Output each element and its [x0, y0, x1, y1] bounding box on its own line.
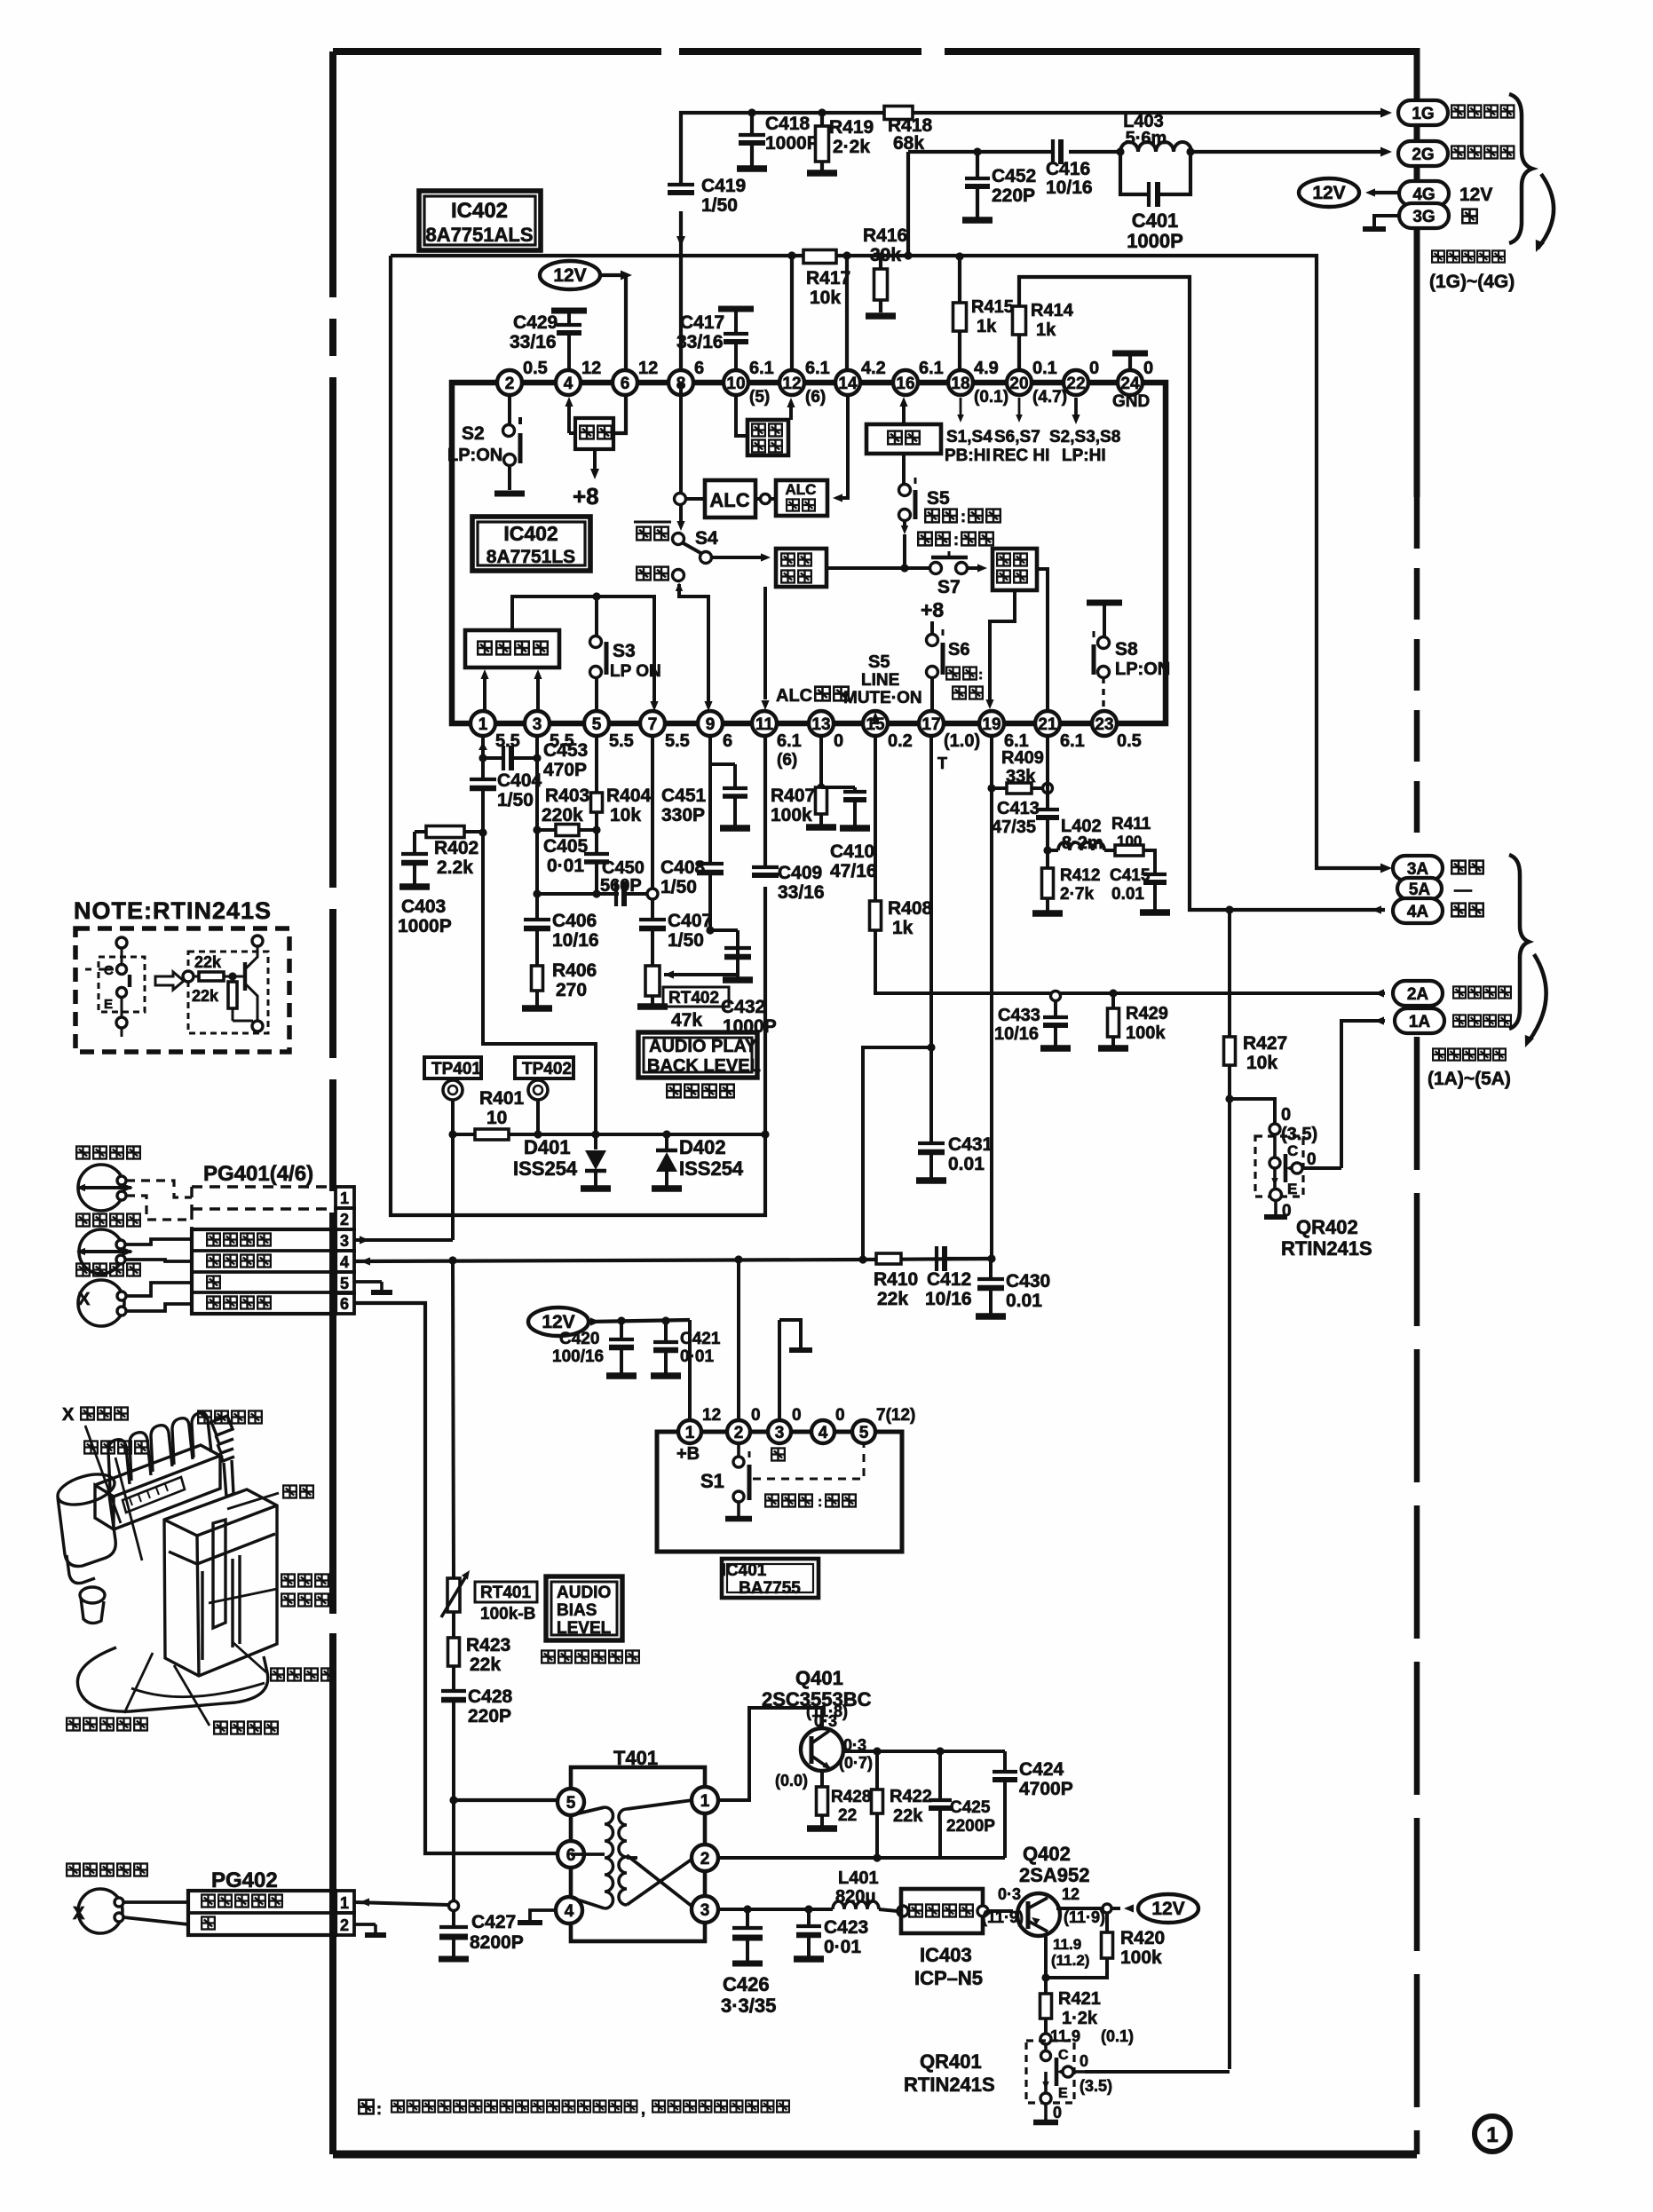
capacitor C404 1/50 on pin1 column — [481, 758, 485, 779]
svg-text:Q401: Q401 — [795, 1667, 843, 1689]
svg-text:6: 6 — [694, 359, 704, 378]
svg-text:ALC: ALC — [786, 481, 817, 498]
svg-text:RT401: RT401 — [480, 1584, 531, 1602]
svg-text:11.9: 11.9 — [1050, 2027, 1080, 2045]
pin 20 of IC402 — [1007, 370, 1032, 395]
equivalence arrow — [155, 972, 184, 990]
svg-text:5·6m: 5·6m — [1126, 129, 1167, 148]
ground PG402 pin2 — [354, 1923, 376, 1926]
label 全抹消磁头 row1 — [202, 1895, 215, 1908]
svg-text:PG401(4/6): PG401(4/6) — [203, 1162, 313, 1186]
wire 2A line components: capacitor C433 10/16 — [1051, 991, 1061, 1001]
capacitor C407 1/50 on pin7 column — [651, 899, 654, 920]
svg-text:2: 2 — [734, 1424, 744, 1442]
label 记录:导通 — [918, 533, 932, 546]
pin 6 of T401 — [558, 1841, 584, 1868]
svg-text:C451: C451 — [661, 786, 707, 806]
svg-text:R407: R407 — [771, 786, 815, 806]
wire row4 record audio line — [360, 1257, 370, 1265]
svg-text::: : — [953, 531, 959, 549]
wire S7 to record amp — [967, 566, 982, 570]
resistor R409 33k between pin19 and pin21 — [992, 786, 1007, 790]
svg-text:23: 23 — [1095, 715, 1113, 734]
svg-text:1: 1 — [478, 715, 488, 734]
switch S8 LP:ON at pin23 — [1087, 600, 1122, 606]
svg-text:9: 9 — [706, 715, 716, 734]
svg-text:0: 0 — [835, 1406, 845, 1425]
svg-text:R409: R409 — [1001, 748, 1044, 768]
head 音频磁头 audio head — [76, 1214, 90, 1227]
svg-text:6.1: 6.1 — [1060, 731, 1085, 751]
svg-text:R428: R428 — [831, 1788, 871, 1806]
label 插件 — [283, 1486, 297, 1498]
wire pin1 IC401 to 12V — [688, 1320, 692, 1420]
transistor QR401 digital — [1040, 2034, 1051, 2044]
pin 11 of IC402 — [752, 711, 777, 736]
svg-text:S5: S5 — [868, 652, 890, 672]
svg-text:C401: C401 — [1132, 209, 1179, 232]
wire pin20 branch y=312 — [1019, 277, 1385, 910]
svg-text:3: 3 — [533, 715, 542, 734]
pin 21 of IC402 — [1035, 711, 1060, 736]
brace 1A-5A — [1509, 855, 1529, 1029]
svg-text:C431: C431 — [948, 1134, 993, 1155]
svg-text:100k: 100k — [1126, 1023, 1166, 1043]
arrow to socket circuit — [1538, 174, 1554, 249]
connector 2A — [1393, 981, 1443, 1006]
svg-text:(11.2): (11.2) — [1051, 1952, 1089, 1969]
svg-text:C415: C415 — [1110, 866, 1151, 885]
svg-text:(0.1): (0.1) — [974, 388, 1008, 407]
svg-text:E: E — [1287, 1181, 1297, 1197]
label 到系统控制 (1A)-(5A) — [1433, 1048, 1445, 1060]
note text bottom — [359, 2100, 373, 2114]
frame right border middle dashed — [1414, 497, 1420, 850]
svg-text:X: X — [73, 1904, 85, 1924]
svg-text:R403: R403 — [545, 786, 589, 806]
svg-text::: : — [961, 508, 966, 525]
label 记录:导通 at S6 — [946, 668, 960, 680]
diode D402 ISS254 — [596, 1133, 667, 1136]
resistor R417 10k in series on loop wire — [803, 250, 836, 264]
svg-text:(5): (5) — [749, 388, 770, 407]
svg-text:C452: C452 — [992, 166, 1036, 186]
svg-text:0.5: 0.5 — [523, 359, 548, 378]
svg-text:0: 0 — [1053, 2104, 1062, 2121]
svg-text:10/16: 10/16 — [1046, 178, 1093, 198]
pin 16 of IC402 — [893, 370, 918, 395]
wire pin17 branch to record line — [863, 1047, 931, 1259]
svg-text:C453: C453 — [543, 740, 588, 761]
svg-text:17: 17 — [921, 715, 940, 734]
svg-text:(0.0): (0.0) — [775, 1772, 808, 1789]
resistor R421 1.2k — [1040, 1994, 1052, 2018]
svg-text:S4: S4 — [695, 528, 718, 549]
svg-text:R419: R419 — [829, 117, 874, 138]
wire pin10 to block — [736, 395, 747, 436]
capacitor C428 220P — [441, 1689, 466, 1693]
svg-text:R414: R414 — [1031, 301, 1074, 320]
svg-text:X: X — [78, 1290, 91, 1309]
svg-text:(11·8): (11·8) — [806, 1702, 848, 1720]
svg-text:560P: 560P — [600, 876, 642, 896]
svg-text:3: 3 — [775, 1424, 785, 1442]
svg-text:1/50: 1/50 — [701, 195, 738, 216]
ground row5 — [354, 1280, 382, 1284]
capacitor C417 33/16 at pin10 — [718, 306, 754, 312]
pin 5 of IC401 — [852, 1420, 875, 1443]
svg-text:S6: S6 — [948, 640, 969, 660]
wire T401 pin3 output — [719, 1908, 833, 1911]
note right circuit 22k resistors + transistor — [188, 952, 268, 1033]
svg-text:33/16: 33/16 — [778, 882, 825, 903]
svg-text:100: 100 — [1117, 833, 1142, 849]
wire pin9 column — [708, 736, 712, 864]
svg-text:+8: +8 — [573, 483, 599, 510]
svg-text:11.9: 11.9 — [1053, 1936, 1081, 1953]
svg-text:6: 6 — [340, 1295, 349, 1313]
svg-text:220P: 220P — [468, 1706, 511, 1726]
wire pin7 column — [651, 736, 654, 894]
svg-text:12: 12 — [581, 359, 601, 378]
svg-text:1/50: 1/50 — [668, 930, 704, 951]
svg-text:0.2: 0.2 — [888, 731, 913, 751]
svg-text:C408: C408 — [660, 857, 706, 878]
label 倾斜调整 — [271, 1669, 284, 1681]
wire row6 erase audio down — [354, 1303, 565, 1853]
svg-text:820μ: 820μ — [835, 1887, 876, 1907]
svg-text:2200P: 2200P — [946, 1817, 995, 1836]
svg-text:1: 1 — [1486, 2123, 1498, 2147]
svg-text:10/16: 10/16 — [994, 1024, 1039, 1044]
wire TP row to pin11 column — [667, 1133, 765, 1136]
svg-text:4.9: 4.9 — [974, 359, 999, 378]
svg-text:39k: 39k — [870, 245, 901, 265]
svg-text:100k: 100k — [1120, 1947, 1162, 1968]
svg-text:13: 13 — [811, 715, 830, 734]
svg-text:22k: 22k — [192, 987, 219, 1005]
svg-text:0·3: 0·3 — [998, 1885, 1021, 1903]
resistor R401 10 on TP row — [453, 1133, 475, 1136]
svg-text:(1G)~(4G): (1G)~(4G) — [1429, 272, 1515, 292]
dashed S1 to pin5 — [753, 1445, 864, 1479]
label 地 row2 — [202, 1917, 215, 1930]
svg-text:5: 5 — [566, 1794, 576, 1813]
svg-text:3A: 3A — [1407, 860, 1429, 879]
wire TP402 stem — [536, 1100, 540, 1134]
capacitor C416 10/16 series — [1051, 139, 1055, 164]
svg-text:AUDIO: AUDIO — [557, 1584, 611, 1602]
svg-text:1/50: 1/50 — [497, 790, 534, 810]
op-amp U-IC401 body — [657, 1432, 902, 1552]
transistor QR402 digital — [1269, 1124, 1280, 1134]
svg-text:2·7k: 2·7k — [1060, 885, 1094, 904]
svg-text:BIAS: BIAS — [557, 1601, 597, 1620]
pin 2 of IC401 — [727, 1420, 750, 1443]
pin 13 of IC402 — [809, 711, 834, 736]
svg-text:1000P: 1000P — [398, 916, 452, 936]
svg-text:LEVEL: LEVEL — [557, 1619, 612, 1638]
svg-text:C412: C412 — [927, 1269, 971, 1290]
pin 17 of IC402 — [919, 711, 944, 736]
svg-text:4.2: 4.2 — [861, 359, 886, 378]
block 重放放大 playback amp — [465, 630, 559, 668]
pin 4 of IC401 — [811, 1420, 834, 1443]
switch S3 LP ON at pin5 — [595, 596, 598, 636]
pin 12 of IC402 — [779, 370, 804, 395]
svg-text:0·01: 0·01 — [824, 1937, 861, 1957]
wire S4 to line amp — [711, 556, 765, 559]
svg-text:0·01: 0·01 — [680, 1347, 714, 1366]
svg-text::: : — [978, 668, 983, 683]
wire Q401 emitter to R428 — [820, 1771, 824, 1787]
pin 8 of IC402 — [668, 370, 693, 395]
svg-text:C450: C450 — [602, 858, 645, 878]
svg-text:5: 5 — [592, 715, 602, 734]
T401 primary winding — [605, 1807, 613, 1908]
svg-text::: : — [376, 2100, 382, 2118]
inductor L403 5.6m — [1116, 147, 1124, 155]
ground at 3G — [1374, 216, 1399, 227]
svg-text:C419: C419 — [701, 176, 746, 196]
svg-text:18: 18 — [951, 375, 969, 393]
svg-text:LP:ON: LP:ON — [447, 446, 502, 465]
svg-text:0: 0 — [834, 731, 843, 751]
svg-text:2: 2 — [340, 1916, 349, 1934]
wire pin3 column — [535, 736, 539, 758]
svg-text:1A: 1A — [1409, 1013, 1431, 1031]
svg-text:2·2k: 2·2k — [833, 137, 870, 157]
capacitor C420 100/16 — [617, 1316, 625, 1324]
svg-text:R406: R406 — [552, 960, 597, 981]
wire T401 pin2 bus — [719, 1856, 1005, 1860]
svg-text:0: 0 — [1143, 359, 1153, 378]
svg-text:220k: 220k — [542, 805, 583, 826]
connector PG401 box — [192, 1187, 336, 1209]
wire line amp to S7 — [826, 566, 930, 570]
svg-text:D402: D402 — [679, 1136, 726, 1158]
svg-text:1·2k: 1·2k — [1062, 2009, 1098, 2028]
svg-text:10: 10 — [486, 1108, 507, 1128]
junction — [747, 108, 755, 116]
capacitor C403 1000P — [413, 832, 416, 854]
svg-text:S8: S8 — [1115, 639, 1138, 660]
frame bottom border — [333, 2151, 1417, 2159]
svg-text:22k: 22k — [877, 1289, 908, 1309]
svg-text:2: 2 — [505, 375, 515, 393]
pin 9 of IC402 — [698, 711, 723, 736]
test point TP402 — [515, 1057, 573, 1078]
pin 14 of IC402 — [835, 370, 860, 395]
wire line amp to pin11 — [763, 587, 767, 699]
svg-text:ALC: ALC — [776, 686, 812, 706]
svg-text:C413: C413 — [997, 799, 1040, 818]
svg-text:4700P: 4700P — [1019, 1779, 1073, 1799]
svg-text:19: 19 — [982, 715, 1000, 734]
resistor R428 22 — [817, 1787, 828, 1815]
svg-text:1G: 1G — [1412, 105, 1434, 123]
wire audio head to rows 3-4 — [125, 1239, 192, 1244]
svg-text:C: C — [1287, 1142, 1298, 1159]
svg-text:4: 4 — [565, 1902, 574, 1921]
svg-text:C433: C433 — [998, 1006, 1040, 1025]
wire Q401 collector to T401 pin1 — [719, 1708, 822, 1800]
resistor R420 100k — [1105, 1913, 1109, 1932]
svg-text:S5: S5 — [927, 488, 950, 509]
wire Q402 collector to 12V — [1056, 1907, 1107, 1910]
label S2,S3,S8 LP:HI under pin22 — [1072, 415, 1080, 424]
svg-text:12: 12 — [638, 359, 658, 378]
resistor R429 100k — [1109, 989, 1117, 997]
capacitor C432 1000P — [736, 930, 739, 948]
label 高度调整 — [198, 1411, 211, 1424]
svg-text:2G: 2G — [1412, 146, 1434, 164]
svg-text:21: 21 — [1038, 715, 1057, 734]
block ALC 检测 detect — [776, 480, 827, 516]
label box IC402 8A7751LS inner — [472, 517, 590, 571]
capacitor C405 0.01 on pin5 column — [595, 830, 598, 854]
frame right border upper — [1414, 48, 1420, 497]
svg-text:C406: C406 — [552, 911, 597, 931]
wire PG402 pin1 to bias column — [360, 1898, 369, 1906]
svg-text:100k: 100k — [771, 805, 812, 826]
svg-text:R415: R415 — [971, 297, 1014, 317]
svg-text:C: C — [1058, 2048, 1069, 2063]
svg-text:1k: 1k — [892, 918, 913, 938]
svg-text:R423: R423 — [466, 1635, 510, 1655]
svg-text:TP402: TP402 — [522, 1060, 572, 1078]
wire row3 playback audio to TP401 column — [360, 1236, 369, 1244]
svg-text:4: 4 — [819, 1424, 828, 1442]
svg-text:R412: R412 — [1060, 866, 1100, 885]
connector 1A — [1395, 1008, 1444, 1033]
label box AUDIO BIAS LEVEL — [546, 1576, 622, 1640]
svg-text:C421: C421 — [680, 1330, 721, 1348]
svg-text:4: 4 — [340, 1253, 349, 1271]
svg-text:1k: 1k — [1036, 320, 1056, 340]
svg-text:IC402: IC402 — [451, 199, 508, 223]
label 地 row5 — [207, 1276, 220, 1289]
wire record amp to pin19 — [990, 590, 1015, 704]
capacitor C412 10/16 in series — [935, 1246, 938, 1271]
pin 5 of T401 — [558, 1789, 584, 1815]
potentiometer RT401 100k-B — [447, 1578, 460, 1612]
svg-text:5A: 5A — [1409, 881, 1431, 899]
resistor R411 100 — [1104, 849, 1115, 852]
svg-text:(1.0): (1.0) — [944, 731, 980, 751]
transistor symbol left in note — [99, 957, 145, 1012]
pin 19 of IC402 — [979, 711, 1004, 736]
svg-text:8A7751LS: 8A7751LS — [486, 547, 575, 567]
page number 1 circled — [1475, 2116, 1510, 2152]
svg-text:0.01: 0.01 — [1006, 1291, 1042, 1311]
svg-text:3: 3 — [700, 1901, 710, 1920]
power 12V oval at IC401 — [528, 1307, 589, 1336]
switch S2 LP:ON at pin2 — [508, 395, 511, 425]
svg-text:MUTE·ON: MUTE·ON — [843, 689, 922, 707]
svg-text:12V: 12V — [1151, 1899, 1184, 1919]
svg-text:BA7755: BA7755 — [739, 1579, 801, 1598]
svg-text:R422: R422 — [890, 1787, 932, 1806]
svg-text:47/35: 47/35 — [992, 818, 1036, 837]
wire pin1 column down to TP row — [483, 833, 596, 1134]
capacitor C425 2200P — [936, 1747, 944, 1755]
svg-text:C429: C429 — [513, 312, 558, 333]
block 缓冲 buffer — [866, 424, 941, 454]
wire pin21 column with C413 47/35 — [1046, 736, 1049, 810]
pin 15 of IC402 — [863, 711, 888, 736]
resistor R410 22k in series on record line — [876, 1253, 901, 1264]
svg-text:1k: 1k — [977, 317, 997, 336]
pin 3 of IC402 — [525, 711, 550, 736]
capacitor C453 470P between pin1 and pin3 columns — [483, 756, 503, 760]
svg-text:X: X — [62, 1405, 75, 1425]
svg-text:2: 2 — [700, 1850, 710, 1868]
svg-text:R429: R429 — [1126, 1004, 1168, 1023]
T401 secondary winding — [619, 1809, 627, 1905]
svg-text:PB:HI: PB:HI — [945, 446, 991, 465]
svg-text:C428: C428 — [468, 1687, 513, 1707]
svg-text:10k: 10k — [810, 288, 841, 308]
svg-text:ICP–N5: ICP–N5 — [914, 1967, 983, 1989]
wire 2G drop to loop wire — [906, 152, 910, 256]
resistor R407 100k at pin13 — [819, 736, 823, 787]
label 音频录 放磁头 — [281, 1575, 295, 1587]
pin 22 of IC402 — [1064, 370, 1088, 395]
svg-text:100k-B: 100k-B — [480, 1605, 535, 1623]
svg-text:D401: D401 — [524, 1136, 571, 1158]
capacitor C427 8200P — [452, 1910, 455, 1927]
svg-text:5.5: 5.5 — [665, 731, 690, 751]
svg-text:1: 1 — [700, 1792, 710, 1811]
wire playback loop left/bottom (440,288)-(440,1369)-(862,1369)-pin11 — [391, 256, 765, 1215]
svg-text:22: 22 — [838, 1806, 857, 1825]
svg-text:1: 1 — [340, 1894, 349, 1912]
frame top border — [333, 48, 1417, 55]
svg-text:R416: R416 — [863, 225, 907, 246]
label box AUDIO PLAY BACK LEVEL — [638, 1032, 757, 1078]
svg-text:C425: C425 — [950, 1798, 991, 1817]
connector 4A — [1393, 898, 1443, 923]
svg-text:LP:ON: LP:ON — [1115, 660, 1170, 679]
svg-text:C427: C427 — [471, 1912, 516, 1932]
label RT402 47k — [663, 987, 729, 1007]
pin 4 of IC402 — [556, 370, 581, 395]
pin 10 of IC402 — [724, 370, 748, 395]
svg-text:(6): (6) — [777, 751, 797, 770]
svg-text:0: 0 — [1089, 359, 1099, 378]
capacitor C421 0.01 — [661, 1316, 669, 1324]
capacitor C452 220P — [973, 147, 981, 155]
svg-text:AUDIO PLAY: AUDIO PLAY — [649, 1037, 757, 1056]
svg-text:C410: C410 — [830, 841, 874, 862]
capacitor C408 1/50 on pin9 column — [697, 862, 724, 865]
resistor R423 22k — [448, 1638, 460, 1666]
label 消音磁头 — [84, 1442, 98, 1454]
svg-text:47k: 47k — [671, 1010, 702, 1031]
connector 5A — [1397, 878, 1442, 899]
resistor R406 270 — [532, 966, 543, 991]
svg-text:12V: 12V — [1312, 183, 1345, 203]
svg-text:E: E — [1058, 2086, 1068, 2101]
svg-text:—: — — [1454, 881, 1472, 900]
svg-text:0.01: 0.01 — [948, 1154, 985, 1174]
wire 12V to regulator handled above; wire regulator to pin4 — [569, 431, 575, 435]
svg-text:2.2k: 2.2k — [437, 857, 473, 878]
pin 4 of T401 — [556, 1897, 582, 1924]
svg-text:S6,S7: S6,S7 — [994, 428, 1040, 446]
svg-text:3: 3 — [340, 1232, 349, 1250]
